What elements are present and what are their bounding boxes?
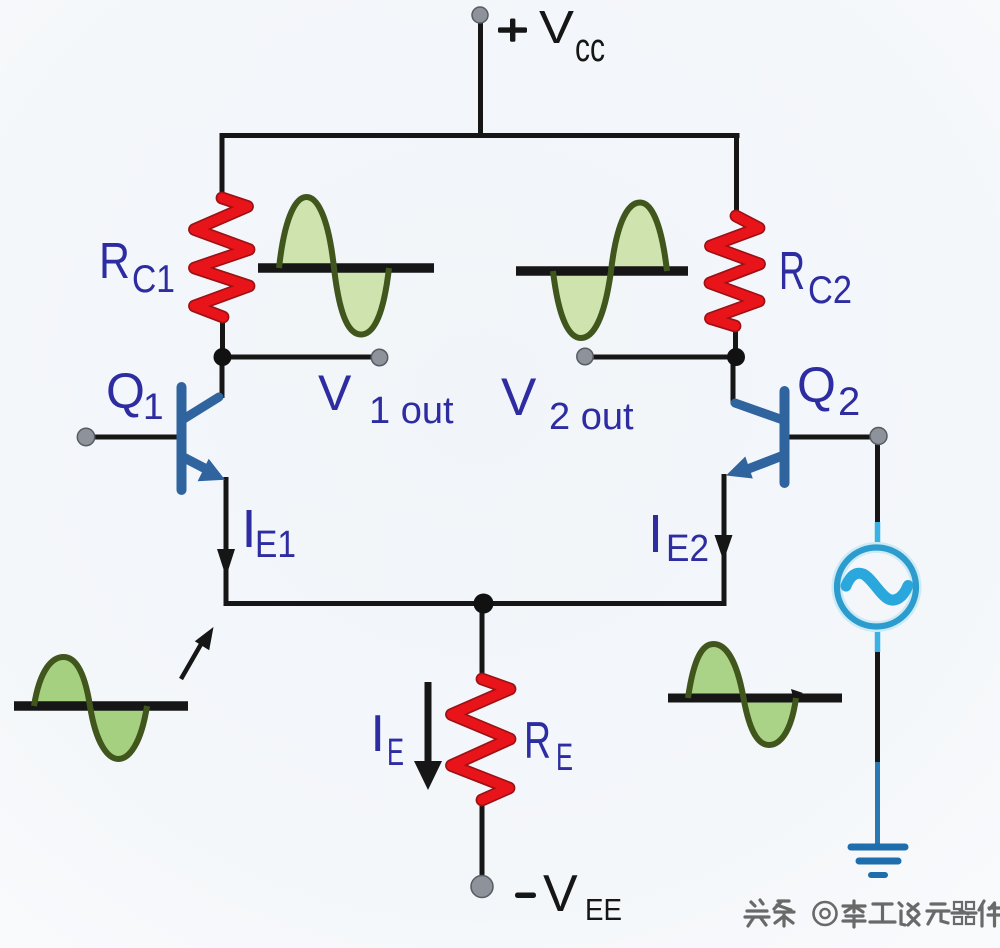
svg-text:E1: E1 xyxy=(255,524,296,566)
svg-text:R: R xyxy=(99,232,130,289)
svg-text:2 out: 2 out xyxy=(549,396,634,438)
svg-text:I: I xyxy=(371,705,385,763)
svg-text:E: E xyxy=(556,737,573,779)
svg-text:V: V xyxy=(543,865,578,923)
svg-text:E: E xyxy=(387,732,404,774)
svg-text:1 out: 1 out xyxy=(369,390,454,432)
svg-text:EE: EE xyxy=(585,892,622,927)
svg-text:C1: C1 xyxy=(132,258,175,301)
svg-text:R: R xyxy=(779,241,805,301)
svg-text:C2: C2 xyxy=(808,269,852,312)
svg-text:I: I xyxy=(648,504,663,564)
svg-text:1: 1 xyxy=(143,386,164,427)
svg-text:Q: Q xyxy=(797,357,836,413)
svg-text:R: R xyxy=(524,712,551,770)
svg-text:V: V xyxy=(318,365,352,421)
svg-text:cc: cc xyxy=(575,26,605,70)
svg-text:V: V xyxy=(539,1,574,53)
svg-text:2: 2 xyxy=(838,380,860,424)
svg-text:E2: E2 xyxy=(666,528,709,570)
svg-text:V: V xyxy=(501,368,537,427)
svg-text:Q: Q xyxy=(106,363,145,419)
